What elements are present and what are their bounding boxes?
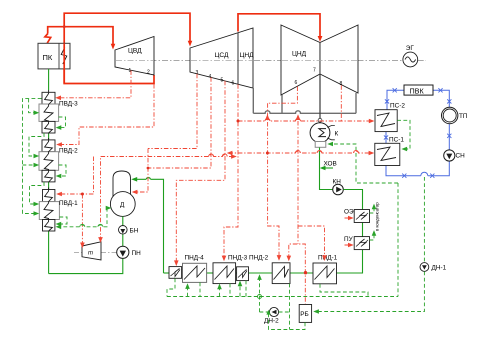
hop arcs overlay xyxy=(80,119,359,227)
wire: ПВД-1 internal loop xyxy=(57,217,67,224)
wire: steam stub to ПУ xyxy=(345,244,352,246)
arrow into ПВД-1 xyxy=(56,192,62,197)
arrow up into ПНД-2 cooler xyxy=(238,281,243,287)
wire: branch into ПВД-3 shell xyxy=(29,99,37,113)
wire: main condensate through ПНД heaters xyxy=(164,272,314,274)
wire: make-up water ХОВ xyxy=(320,161,337,171)
arrow into ПВД-1 cooler from deaerator line xyxy=(56,225,62,230)
turbine ЦНД double-flow xyxy=(281,25,358,95)
arrow into ПВД-3 cooler xyxy=(56,125,62,130)
heat consumer ТП xyxy=(442,107,468,123)
junction dots red network xyxy=(63,25,307,274)
arrow into РБ xyxy=(313,309,319,314)
wire: stub into ПНД-2 cooler xyxy=(239,283,241,297)
arrow into ПС-2 xyxy=(369,119,375,124)
condenser К xyxy=(310,123,338,143)
turbine ЦСД with ЦНД section xyxy=(190,28,254,88)
condenser neck line xyxy=(253,88,356,113)
svg-text:РБ: РБ xyxy=(300,311,308,318)
wire: steam stub to ОЭ xyxy=(345,217,352,219)
arrow up into ПНД-3 xyxy=(217,284,222,290)
wire: feed pump discharge xyxy=(49,258,123,273)
arrow into ПВД-3 shell xyxy=(34,110,40,115)
arrow into ПВД-1 cooler xyxy=(56,222,62,227)
wire: deaerator to pumps xyxy=(122,216,124,246)
arrow into ПВД-1 shell upper xyxy=(34,202,40,207)
svg-text:СН: СН xyxy=(456,153,466,160)
wire: branch into ПВД-2 shell lower xyxy=(23,164,37,166)
pump ПН xyxy=(117,246,141,258)
heater ПНД-4 xyxy=(183,255,207,283)
arrow into ПС-1 xyxy=(369,151,375,156)
pump КН xyxy=(333,179,344,195)
pump ДН-1 xyxy=(420,263,447,272)
wire: extraction 6 of ЦНД into condenser neck xyxy=(268,87,298,104)
turbine drive of feed pump xyxy=(82,242,101,260)
wire: branch to ПНД-1 xyxy=(298,226,325,259)
svg-text:ПВК: ПВК xyxy=(410,86,425,95)
heater ПНД-2 xyxy=(272,263,290,284)
svg-text:К: К xyxy=(335,131,339,138)
svg-text:Д: Д xyxy=(120,202,125,209)
svg-text:ПНД-1: ПНД-1 xyxy=(318,255,338,262)
wire: extraction steam to ПС-1 xyxy=(229,151,373,153)
wire: ПВД-1 drain to deaerator xyxy=(57,208,109,227)
arrow into ПВД-1 shell lower xyxy=(34,211,40,216)
svg-text:ПУ: ПУ xyxy=(344,236,354,243)
wire: ПНД-4 cooler drain xyxy=(167,279,175,297)
svg-text:т: т xyxy=(88,251,93,257)
svg-text:5: 5 xyxy=(221,78,224,84)
deaerator tank xyxy=(113,171,131,199)
wire: reheat line inside boiler xyxy=(63,43,65,83)
wire: ОЭ vent to condenser xyxy=(370,206,375,214)
svg-text:КН: КН xyxy=(333,179,342,186)
arrow into ПНД-4 xyxy=(174,260,179,266)
wire: stub into ПНД-4 xyxy=(187,285,189,296)
wire: crossover ЦСД to ЦНД xyxy=(238,14,320,38)
wire: ЦНД exhaust to condenser xyxy=(318,74,322,123)
arrow: steam into ЦНД xyxy=(318,36,323,42)
svg-text:ПНД-3 ПНД-2: ПНД-3 ПНД-2 xyxy=(228,255,269,262)
svg-text:ПС-2: ПС-2 xyxy=(390,103,405,110)
svg-text:6: 6 xyxy=(295,80,298,86)
turbine ЦВД xyxy=(115,37,154,76)
wire: extraction 3 to deaerator xyxy=(148,74,197,149)
wire: main steam line boiler to HP turbine xyxy=(45,27,113,46)
wire: vent to condenser neck left xyxy=(268,103,279,258)
generator ЭГ xyxy=(403,45,418,67)
wire: main condensate from condenser to КН xyxy=(320,148,333,190)
svg-text:ЦСД: ЦСД xyxy=(215,52,229,59)
wire: ПНД-1 drain xyxy=(320,284,368,297)
svg-text:ДН-1: ДН-1 xyxy=(432,265,447,272)
svg-text:ЦНД: ЦНД xyxy=(292,51,307,58)
svg-text:ДН-2: ДН-2 xyxy=(264,318,279,325)
arrow into ПВД-2 shell lower xyxy=(34,163,40,168)
peak boiler ПВК xyxy=(404,85,433,95)
svg-text:ПН: ПН xyxy=(132,250,142,257)
heater ПНД-1 xyxy=(313,255,338,284)
arrow into ПУ xyxy=(348,243,354,248)
wire: ПНД-2 cooler drain xyxy=(245,281,247,297)
wire: extraction 1 to ПВД-3 xyxy=(58,70,131,97)
wire: deaerator steam supply xyxy=(135,149,149,193)
wire: extraction steam to ПС-2 xyxy=(238,119,372,121)
deaerator column Д xyxy=(110,192,135,217)
svg-text:ПВД-3: ПВД-3 xyxy=(59,101,78,108)
arrow into deaerator from drains xyxy=(106,206,112,211)
wire: РБ drain loop xyxy=(269,312,306,330)
flash tank РБ xyxy=(299,305,311,323)
wire: stub into ПНД-3 xyxy=(219,286,221,297)
wire: cold reheat from ЦВД exhaust to boiler reheater xyxy=(64,43,154,84)
arrow into ПС-1 from ПС-2 drain xyxy=(401,147,407,152)
valves on network water line xyxy=(384,88,452,178)
heater ПНД-4 drain cooler xyxy=(169,267,182,279)
arrow: steam into ЦСД xyxy=(188,41,193,47)
red arrows of extraction network xyxy=(55,96,374,267)
wire: condensate КН to ОЭ ПУ and ПНД-1 xyxy=(337,190,363,274)
wire: cold reheat tap to ПВД-2 xyxy=(59,84,154,145)
arrow: steam into ЦВД xyxy=(111,44,116,50)
arrow into ПВД-2 shell upper xyxy=(34,154,40,159)
wire: drains header under ПНД heaters xyxy=(167,296,398,298)
boiler ПК xyxy=(38,43,70,69)
arrow into ПНД-1 xyxy=(322,255,327,261)
wire: feedwater between heaters xyxy=(48,133,50,274)
heater ПВД-1 xyxy=(39,188,78,232)
svg-text:ОЭ: ОЭ xyxy=(344,209,354,216)
arrow merge into ПНД-3 line xyxy=(231,154,237,159)
arrow into ПВД-3 xyxy=(55,96,61,101)
arrow into turbine drive right xyxy=(98,237,103,243)
heater ПНД-2 drain cooler xyxy=(237,267,249,281)
wire: branch to ПВД-1 xyxy=(59,157,94,195)
arrow into ПВД-2 cooler xyxy=(56,174,62,179)
condenser hotwell xyxy=(315,142,326,148)
arrow left at ПС-1 line start xyxy=(227,151,233,156)
wire: feedwater boiler inlet xyxy=(48,69,50,90)
arrow into ПНД-2 right xyxy=(287,256,292,262)
wire: ПВД-3 cascade to ПВД-2 xyxy=(29,133,44,156)
arrow ДН-2 discharge into condensate line xyxy=(257,274,262,280)
svg-text:ЦНД: ЦНД xyxy=(240,52,255,59)
arrow РБ return up xyxy=(266,310,270,315)
wire: ДН-2 suction xyxy=(260,284,290,330)
arrow into ОЭ xyxy=(348,216,354,221)
shaft of feed pump turbine drive xyxy=(101,252,117,254)
arrow up into ПНД-4 xyxy=(185,283,190,289)
heater ПНД-3 xyxy=(213,255,269,284)
wire: ПС-2 drain to ПС-1 xyxy=(397,120,410,149)
wire: branch to ПНД-2 second inlet and РБ xyxy=(289,244,306,304)
svg-text:ПВД-1: ПВД-1 xyxy=(59,200,78,207)
wire: ПВД-2 cascade to ПВД-1 xyxy=(30,182,45,204)
arrow into ПНД-2 left xyxy=(277,255,282,261)
wire: network water circuit xyxy=(386,90,449,175)
extraction steam network (red dash-dot) xyxy=(58,70,372,304)
wire: ПС-1 drain to header xyxy=(329,144,398,297)
arrow into deaerator xyxy=(132,190,138,195)
svg-text:ХОВ: ХОВ xyxy=(324,161,337,168)
arrow ПУ vent up xyxy=(372,230,377,236)
svg-text:ПС-1: ПС-1 xyxy=(389,137,404,144)
svg-text:ПК: ПК xyxy=(43,53,53,62)
seal steam cooler ПУ xyxy=(344,236,370,250)
arrow into condenser hotwell xyxy=(327,142,333,147)
arrow into ПВД-2 xyxy=(56,142,62,147)
svg-text:ТП: ТП xyxy=(459,113,468,120)
junction node on drains header xyxy=(258,295,262,299)
wire: extraction 8 xyxy=(340,85,342,121)
heater ПВД-3 xyxy=(39,90,78,133)
wire: hot reheat boiler to ЦСД xyxy=(64,13,190,43)
shaft centerline xyxy=(116,60,426,62)
wire: ПУ vent to condenser xyxy=(370,232,375,240)
svg-text:ЭГ: ЭГ xyxy=(406,45,415,52)
svg-text:2: 2 xyxy=(147,70,150,76)
wire: ПВД-2 internal loop xyxy=(57,165,66,176)
svg-text:6: 6 xyxy=(232,81,235,87)
wire: ПНД-4 shell drain xyxy=(199,282,201,296)
svg-text:ПВД-2: ПВД-2 xyxy=(59,148,78,155)
svg-text:7: 7 xyxy=(313,68,316,74)
wire: ПВД-1 and turbine drive steam line xyxy=(101,155,234,240)
wire: ПВД-3 upper drain header xyxy=(23,99,42,214)
pump ДН-2 xyxy=(264,307,279,324)
heater ПВД-2 xyxy=(39,138,78,182)
arrow into ПНД-3 xyxy=(222,256,227,262)
network heater ПС-2 xyxy=(375,103,405,132)
network heater ПС-1 xyxy=(375,137,405,166)
arrow into turbine drive left xyxy=(80,243,85,249)
svg-text:в конденсатор: в конденсатор xyxy=(375,202,380,231)
green arrows of drain network xyxy=(34,110,408,314)
pump БН xyxy=(119,226,139,235)
wire: vent to condenser neck down through heater zone xyxy=(297,121,299,244)
wire: extraction 6 to ПНД-3 xyxy=(224,84,238,259)
pump СН xyxy=(444,150,465,161)
ejector cooler ОЭ xyxy=(344,209,370,223)
svg-text:БН: БН xyxy=(130,228,139,235)
arrow ОЭ vent up xyxy=(372,204,377,210)
wire: ПВД-3 internal loop xyxy=(57,117,65,128)
wire: extraction 4 to deaerator xyxy=(148,77,211,168)
wire: branch to turbine drive xyxy=(81,194,83,246)
wire: condensate ПНД-4 to deaerator xyxy=(131,177,163,273)
wire: extraction 5 to ПНД-4 xyxy=(176,81,225,264)
drain network (green dashed) xyxy=(23,99,425,330)
arrow up to condenser neck left xyxy=(265,114,270,120)
arrow up to condenser neck right on vent line xyxy=(296,114,301,120)
wire: ПНД-3 shell drain xyxy=(229,284,231,297)
svg-text:ЦВД: ЦВД xyxy=(128,48,142,55)
wire: ДН-1 line to РБ xyxy=(315,177,424,312)
svg-text:ПНД-4: ПНД-4 xyxy=(185,255,205,262)
wire: ДН-2 riser to condensate line xyxy=(259,277,261,313)
